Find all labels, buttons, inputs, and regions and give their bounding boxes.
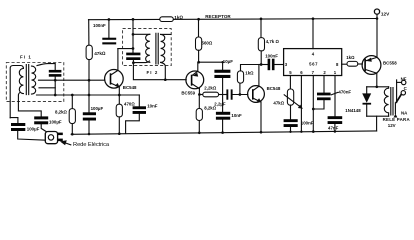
shield box FI1 (6, 63, 64, 102)
node capFI1-base (54, 79, 57, 82)
transistor Q4 BC558 (362, 56, 381, 75)
wire pin6 (300, 76, 302, 132)
wire emitter bias line (199, 61, 223, 63)
wire base line (39, 79, 105, 81)
wire FI2 primary bottom lead (133, 61, 149, 63)
svg-text:12V: 12V (381, 12, 390, 17)
svg-text:1kΩ: 1kΩ (174, 15, 183, 20)
plug mains (45, 132, 57, 144)
node gnd-8k2Q2 (198, 132, 201, 135)
resistor 8k2 (Q2) (198, 95, 200, 109)
wire FI2 secondary bottom (161, 62, 166, 79)
terminal C (401, 91, 405, 95)
node rail-560 (197, 18, 200, 21)
contact armature (396, 80, 398, 103)
capacitor 100uF (bypass) (83, 112, 96, 115)
capacitor 2,2uF (226, 89, 228, 99)
node bias-10uF (221, 61, 223, 63)
capacitor FI1 internal (49, 70, 62, 73)
node gnd-pin5cap (289, 131, 291, 133)
wire 47k to base/bypass column (88, 60, 90, 113)
node rail-100nF (108, 18, 111, 21)
core FI2 (156, 33, 158, 64)
node pin3 drive (260, 63, 263, 66)
resistor 4,7k (260, 19, 262, 38)
svg-text:4,7k Ω: 4,7k Ω (266, 39, 280, 44)
capacitor 100nF (decoupling) (102, 38, 116, 40)
resistor 1k (Q3 collector load) (239, 83, 241, 94)
capacitor 100nF (pin3 coupling) (261, 64, 268, 66)
svg-text:100µF: 100µF (49, 119, 62, 124)
resistor 47k (86, 45, 92, 59)
terminal 12V (374, 9, 379, 14)
node rail-4k7 (260, 18, 263, 21)
resistor 1k (pin8) (342, 63, 347, 65)
node secondary-base (164, 78, 167, 81)
capacitor 100uF (mains left) (10, 118, 18, 123)
svg-text:47kΩ: 47kΩ (273, 101, 284, 106)
resistor 8k2 (left) (71, 95, 73, 109)
contact NA marker (394, 114, 398, 118)
svg-text:Rede Eléctrica: Rede Eléctrica (73, 142, 110, 148)
node gnd-10nF (221, 131, 224, 134)
inductor FI1 primary (19, 68, 23, 94)
wire ground rail (71, 131, 376, 134)
wire 12V riser (376, 14, 378, 18)
wire pin7 ground (312, 76, 314, 132)
capacitor 10uF (222, 62, 224, 69)
wire pin4 supply (312, 19, 314, 49)
svg-text:47kΩ: 47kΩ (94, 51, 106, 56)
svg-text:FI 2: FI 2 (147, 70, 159, 75)
svg-text:2,2µF: 2,2µF (214, 102, 226, 107)
transistor Q2 BC559 (186, 71, 204, 89)
node gnd-100uF (88, 133, 91, 136)
terminal NF (402, 80, 406, 84)
node gnd-47nF (334, 130, 337, 133)
wire collector line FI2 (118, 48, 133, 50)
capacitor 10nF (lower) (216, 112, 230, 115)
svg-text:RELÉ PARA: RELÉ PARA (383, 117, 411, 122)
wire FI2 primary top lead (133, 33, 150, 35)
wire pin5 (289, 76, 291, 90)
capacitor 100uF (mains right) (34, 116, 48, 119)
node gnd-8k2 (71, 133, 74, 136)
svg-text:10nF: 10nF (231, 113, 242, 118)
svg-text:470Ω: 470Ω (124, 101, 135, 106)
svg-text:1kΩ: 1kΩ (346, 55, 355, 60)
svg-text:NA: NA (401, 110, 408, 115)
svg-text:100µF: 100µF (27, 127, 40, 132)
wire top supply rail (89, 19, 378, 20)
capacitor 10nF (emitter line) (138, 95, 140, 106)
wire 47k drop (88, 20, 90, 46)
wire FI1 primary bottom to cap2 (18, 93, 41, 117)
switch arm (396, 94, 402, 103)
wire Q4 collector (376, 73, 378, 87)
svg-text:470nF: 470nF (338, 89, 351, 94)
node rail-12V (376, 17, 379, 20)
wire Q4 emitter from rail (376, 19, 378, 58)
svg-text:100nF: 100nF (93, 23, 106, 28)
capacitor 47nF (pin1) (334, 76, 336, 117)
wire Q1 collector (117, 49, 119, 71)
resistor 470 (Q1 emitter) (118, 95, 120, 104)
wire rail to FI2 tank column (132, 19, 134, 52)
svg-text:BC548: BC548 (267, 86, 281, 91)
svg-text:FI 1: FI 1 (20, 55, 32, 60)
node gnd-pin7 (312, 130, 315, 133)
node gnd-pin6 (300, 131, 302, 133)
capacitor 470nF (pin2) (323, 76, 325, 93)
svg-text:12V: 12V (388, 123, 396, 128)
wire FI1 secondary top to cap (37, 64, 55, 70)
wire Q2 collector (198, 89, 200, 95)
node FI2 cap top (132, 47, 135, 50)
core FI1 (26, 65, 28, 95)
capacitor FI2 internal (126, 53, 140, 56)
node emline-cap (54, 94, 57, 97)
svg-text:10nF: 10nF (147, 104, 158, 109)
core relay (391, 88, 393, 115)
svg-text:1N4148: 1N4148 (345, 108, 361, 113)
node rail-pin4 (312, 17, 315, 20)
wire emitter line (37, 94, 140, 96)
wire Q3 emitter (260, 102, 262, 132)
arrow Rede Electrica (65, 143, 71, 145)
wire NF tick (397, 81, 402, 83)
svg-text:BC558: BC558 (383, 61, 397, 66)
op-amp U1 567 tone decoder (284, 49, 342, 76)
node Q2 collector (198, 93, 201, 96)
transistor Q1 BC548 (105, 70, 124, 89)
svg-text:567: 567 (309, 62, 318, 67)
node pin7-470nF (312, 108, 315, 111)
node emline-Q1 (118, 94, 121, 97)
transistor Q3 BC548 (248, 86, 265, 103)
resistor 560 (198, 19, 200, 37)
wire FI2 secondary top (161, 33, 171, 35)
resistor 2k2 (199, 94, 202, 96)
svg-text:10µF: 10µF (223, 59, 233, 64)
inductor FI2 primary (146, 34, 150, 62)
svg-text:1kΩ: 1kΩ (245, 70, 254, 75)
wire Q1 emitter (118, 87, 120, 95)
inductor FI1 secondary (32, 66, 36, 94)
node col-emline (88, 94, 91, 97)
node cap-1k (239, 93, 242, 96)
wire relay bottom bar (367, 115, 389, 117)
svg-text:560Ω: 560Ω (202, 40, 213, 45)
wire 100nF drop (108, 20, 110, 38)
wire cap bottom column (54, 77, 56, 95)
inductor relay coil (384, 87, 388, 116)
node FI2 primary bottom (132, 61, 135, 64)
svg-text:47nF: 47nF (328, 126, 339, 131)
svg-text:BC559: BC559 (181, 90, 195, 95)
potentiometer 47k trimmer (287, 89, 293, 105)
wire Q3 collector (258, 65, 260, 87)
svg-text:RECEPTOR: RECEPTOR (205, 14, 231, 19)
node 560-emitter (197, 61, 200, 64)
svg-text:8,2kΩ: 8,2kΩ (55, 110, 68, 115)
shield box FI2 (123, 29, 172, 66)
node collector-relay (375, 85, 378, 88)
svg-text:100µF: 100µF (91, 106, 104, 111)
svg-text:NF: NF (401, 76, 407, 81)
svg-text:BC548: BC548 (123, 85, 137, 90)
diode 1N4148 (366, 87, 368, 94)
wire relay top bar (367, 86, 389, 88)
node FI2 primary top (132, 33, 135, 36)
wire FI1 outer left (10, 66, 23, 118)
node 47k-base (88, 79, 91, 82)
svg-text:100nF: 100nF (301, 120, 314, 125)
node rail-FI2 (132, 18, 135, 21)
node gnd-470 (118, 132, 121, 135)
node gnd-Q3 (260, 131, 263, 134)
node emline-8k2 (71, 94, 74, 97)
wire relay to ground (376, 116, 378, 131)
wire pole lead (394, 103, 396, 114)
inductor FI2 secondary (161, 34, 165, 62)
capacitor 100nF (pin5) (290, 105, 292, 119)
svg-text:2,2kΩ: 2,2kΩ (204, 85, 217, 90)
wire FI2 cap bottom to Q2 base (133, 60, 186, 80)
wire secondary mid tap (39, 87, 55, 89)
svg-text:100nF: 100nF (265, 53, 278, 58)
resistor R 1k (series in rail) (160, 17, 174, 22)
